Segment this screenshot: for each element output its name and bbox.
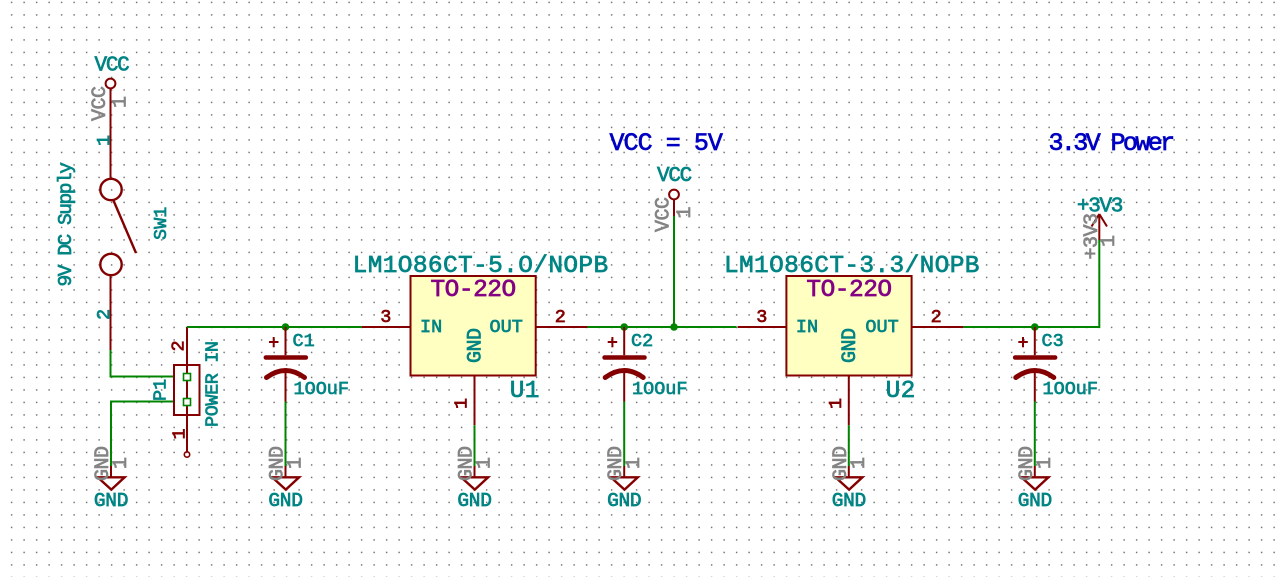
svg-text:POWER IN: POWER IN: [203, 341, 224, 427]
ground (C3): [1022, 466, 1049, 490]
pin 2 stub of U1: [536, 326, 588, 328]
capacitor C2: [605, 327, 645, 402]
pin 1 of SW1 (stub): [110, 96, 112, 178]
svg-text:2: 2: [555, 307, 566, 328]
svg-text:GND: GND: [457, 490, 491, 512]
svg-text:9V DC Supply: 9V DC Supply: [55, 162, 77, 287]
svg-text:C1: C1: [293, 331, 315, 352]
svg-text:VCC: VCC: [657, 165, 692, 188]
capacitor C1: [266, 327, 306, 402]
wire GND to P1 pin 1: [111, 402, 183, 467]
svg-text:1: 1: [170, 428, 191, 439]
ground (U1): [461, 466, 488, 490]
svg-text:1: 1: [848, 457, 871, 469]
pin 1 stub of U2: [848, 376, 850, 426]
pin 1 stub of U1: [474, 376, 476, 426]
ground (C2): [611, 466, 638, 490]
svg-text:IN: IN: [420, 317, 442, 338]
svg-text:1: 1: [826, 398, 847, 409]
pin 3 stub of U1: [362, 326, 411, 328]
svg-text:P1: P1: [151, 379, 172, 401]
svg-text:3: 3: [380, 307, 391, 328]
wire U1 pin1 to GND: [474, 425, 476, 466]
svg-text:VCC: VCC: [95, 55, 130, 78]
svg-text:GND: GND: [94, 490, 128, 512]
svg-text:TO-22O: TO-22O: [430, 277, 515, 304]
ground (P1): [98, 466, 125, 490]
svg-text:GND: GND: [832, 490, 866, 512]
junction at C1 tap: [282, 323, 290, 331]
svg-text:1: 1: [474, 457, 497, 469]
junction at C2 tap: [620, 323, 628, 331]
svg-text:VCC = 5V: VCC = 5V: [610, 129, 723, 158]
svg-text:GND: GND: [1018, 490, 1052, 512]
svg-text:C3: C3: [1042, 331, 1064, 352]
svg-text:GND: GND: [839, 328, 862, 363]
svg-text:2: 2: [931, 307, 942, 328]
svg-text:IN: IN: [796, 317, 818, 338]
svg-text:LM1O86CT-5.O/NOPB: LM1O86CT-5.O/NOPB: [353, 253, 609, 280]
svg-text:OUT: OUT: [865, 317, 898, 338]
svg-text:LM1O86CT-3.3/NOPB: LM1O86CT-3.3/NOPB: [724, 253, 980, 280]
svg-text:VCC: VCC: [653, 197, 676, 232]
svg-text:OUT: OUT: [490, 317, 523, 338]
ground (C1): [272, 466, 299, 490]
capacitor C3: [1015, 327, 1055, 402]
wire VCC to rail: [673, 216, 675, 327]
wire U2 out to +3V3: [963, 239, 1099, 327]
pin 2 of SW1 (stub): [110, 275, 112, 350]
power symbol VCC (mid): [657, 165, 692, 216]
dangling wire end square (P1 pin2): [184, 374, 191, 381]
svg-text:GND: GND: [607, 490, 641, 512]
svg-text:TO-22O: TO-22O: [806, 277, 891, 304]
svg-text:1OOuF: 1OOuF: [1043, 379, 1099, 400]
svg-text:C2: C2: [631, 331, 653, 352]
dangling wire end square (P1 pin1): [184, 399, 191, 406]
svg-text:1: 1: [285, 457, 308, 469]
wire P1 to U1 input rail: [187, 326, 362, 328]
regulator U1 body: [411, 276, 536, 376]
svg-text:1: 1: [94, 135, 115, 146]
svg-text:GND: GND: [465, 328, 488, 363]
wire SW1 to P1 pin 2: [111, 350, 184, 377]
wire C2 to GND: [623, 402, 625, 467]
pin 2 stub of U2: [912, 326, 964, 328]
wire C1 to GND: [285, 402, 287, 467]
svg-text:1: 1: [110, 96, 133, 108]
connector P1: [174, 327, 200, 457]
svg-text:1OOuF: 1OOuF: [294, 379, 350, 400]
svg-text:1: 1: [110, 457, 133, 469]
svg-text:2: 2: [169, 340, 190, 351]
switch SW1: [100, 179, 136, 275]
svg-text:1: 1: [623, 457, 646, 469]
svg-text:1: 1: [1098, 235, 1121, 247]
svg-text:1OOuF: 1OOuF: [632, 379, 688, 400]
wire U2 pin1 to GND: [848, 425, 850, 466]
wire U1 out to U2 in: [587, 326, 736, 328]
svg-text:U2: U2: [886, 378, 916, 405]
junction at VCC tap: [670, 323, 678, 331]
svg-text:3: 3: [756, 307, 767, 328]
svg-text:1: 1: [674, 207, 697, 219]
junction at C3 tap: [1031, 323, 1039, 331]
svg-text:1: 1: [452, 398, 473, 409]
svg-text:GND: GND: [268, 490, 302, 512]
svg-text:1: 1: [1034, 457, 1057, 469]
svg-text:3.3V Power: 3.3V Power: [1049, 129, 1174, 158]
svg-text:SW1: SW1: [151, 207, 172, 240]
power symbol VCC (top left): [95, 55, 130, 97]
wire C3 to GND: [1034, 402, 1036, 467]
svg-text:2: 2: [94, 309, 115, 320]
pin 3 stub of U2: [738, 326, 787, 328]
regulator U2 body: [786, 276, 911, 376]
power symbol +3V3: [1077, 196, 1123, 240]
ground (U2): [836, 466, 863, 490]
svg-text:U1: U1: [510, 378, 540, 405]
